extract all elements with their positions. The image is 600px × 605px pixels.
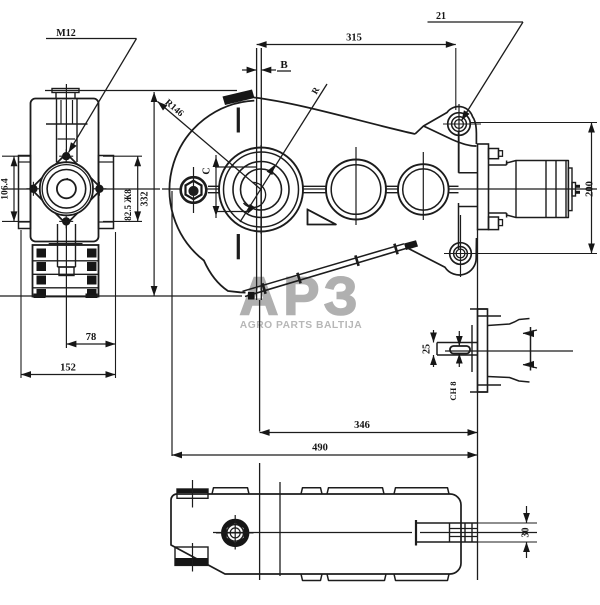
svg-text:C: C (202, 167, 213, 174)
svg-text:30: 30 (521, 528, 532, 538)
svg-text:25: 25 (422, 344, 433, 354)
svg-text:200: 200 (585, 181, 596, 197)
svg-text:490: 490 (312, 443, 328, 454)
svg-text:M12: M12 (56, 28, 75, 39)
svg-text:332: 332 (140, 192, 151, 207)
svg-text:346: 346 (354, 420, 370, 431)
svg-text:78: 78 (86, 332, 97, 343)
svg-text:315: 315 (346, 33, 362, 44)
svg-text:АРЗ: АРЗ (239, 267, 362, 327)
svg-text:AGRO PARTS BALTIJA: AGRO PARTS BALTIJA (240, 320, 363, 331)
svg-text:152: 152 (60, 363, 76, 374)
svg-text:21: 21 (436, 11, 446, 22)
svg-text:CH 8: CH 8 (448, 381, 458, 400)
svg-text:106.4: 106.4 (1, 178, 11, 200)
svg-text:B: B (280, 59, 288, 71)
svg-text:82.5 Ж8: 82.5 Ж8 (123, 189, 133, 221)
